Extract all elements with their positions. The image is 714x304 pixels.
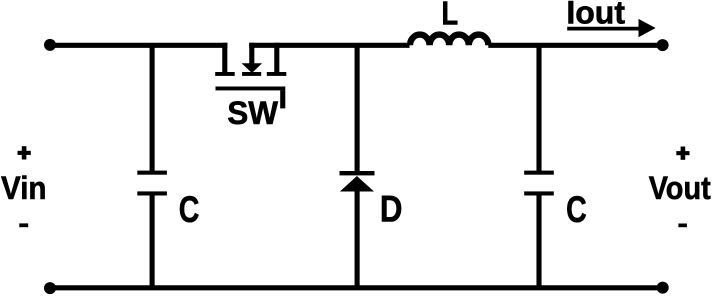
Iout arrowhead [639, 19, 656, 37]
svg-text:L: L [441, 0, 458, 33]
svg-text:C: C [566, 188, 587, 230]
capacitor C (output) top plate [524, 171, 554, 175]
svg-text:SW: SW [227, 95, 279, 131]
wire top rail right segment (inductor to output) [488, 43, 662, 48]
capacitor C (output) bottom lead wire [536, 195, 541, 288]
svg-text:Vout: Vout [649, 170, 711, 206]
svg-text:Iout: Iout [566, 0, 625, 31]
svg-text:Vin: Vin [1, 170, 47, 206]
Iout arrow line [567, 27, 641, 31]
capacitor C (output) top lead wire [536, 45, 541, 171]
transistor SW body arrow lead (middle vertical) [249, 43, 254, 64]
Vin plus sign [18, 146, 31, 159]
transistor SW drain lead (right vertical) [274, 43, 279, 74]
svg-text:D: D [380, 189, 403, 230]
transistor SW body arrowhead [242, 63, 263, 73]
capacitor C (input) bottom plate [137, 191, 167, 195]
transistor SW source contact bar [215, 72, 235, 76]
Vin minus sign [19, 223, 28, 227]
transistor SW source lead (left vertical) [222, 43, 227, 74]
node output - terminal dot [657, 282, 669, 294]
capacitor C (output) bottom plate [524, 191, 554, 195]
transistor SW body contact bar [242, 72, 261, 76]
transistor SW gate bar [216, 87, 286, 91]
Vout minus sign [678, 224, 687, 228]
diode D cathode lead wire [355, 45, 360, 172]
inductor L winding [410, 35, 488, 46]
capacitor C (input) bottom lead wire [150, 195, 155, 288]
svg-text:C: C [179, 188, 200, 230]
node input + terminal dot [44, 39, 56, 51]
transistor SW gate lead stub [280, 90, 285, 108]
diode D anode triangle [340, 176, 374, 192]
node input - terminal dot [44, 282, 56, 294]
diode D cathode bar [340, 171, 375, 175]
Vout plus sign [676, 147, 689, 160]
capacitor C (input) top lead wire [150, 45, 155, 171]
capacitor C (input) top plate [137, 171, 167, 175]
transistor SW drain contact bar [267, 72, 287, 76]
wire top rail middle segment (switch to inductor) [249, 43, 409, 48]
wire top rail left segment [50, 43, 227, 48]
diode D anode lead wire [355, 191, 360, 288]
node output + terminal dot [657, 39, 669, 51]
wire bottom rail [50, 285, 663, 290]
